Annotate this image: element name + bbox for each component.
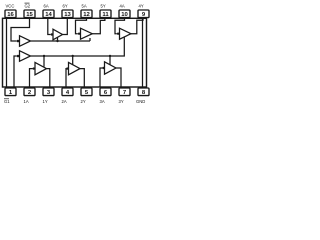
svg-text:5A: 5A [82,3,87,8]
wire 5A from pin 12 [76,18,87,33]
wire G1 from pin 1 to inverter U2 input [14,56,17,87]
pin 7 box [119,88,130,96]
svg-text:GND: GND [136,99,145,104]
pin 16 box [5,10,16,18]
wire riser E2 to buffer 6 enable [57,37,59,41]
svg-text:6Y: 6Y [63,3,68,8]
pin 11 box [100,10,111,18]
svg-text:G2: G2 [25,3,31,8]
wire 6A from pin 14 [48,18,51,34]
pin 2 box [24,88,35,96]
pin 13 box [62,10,73,18]
wire riser E1 to buffer 3 enable [109,56,111,65]
svg-text:14: 14 [45,12,52,18]
wire 2Y to pin 5 [80,69,84,87]
svg-text:11: 11 [102,12,109,18]
pin 9 box [138,10,149,18]
pin 3 box [43,88,54,96]
svg-text:3A: 3A [100,99,105,104]
wire enable bus E2 from U1 output [31,40,91,42]
pin 1 box [5,88,16,96]
wire enable bus E1 from U2 output to buffer 4 enable [31,37,125,56]
input bubble inverter U1 [17,40,20,43]
pin 6 box [100,88,111,96]
inverter U2 (G1 enable) [20,51,31,62]
overline G1 [4,98,9,100]
input dot buffer 3 [102,67,104,69]
input dot buffer 2 [66,67,68,69]
svg-text:1A: 1A [24,99,29,104]
wire riser E2 to buffer 5 enable [89,38,91,41]
overline G2 [25,2,30,4]
pin 12 box [81,10,92,18]
input dot buffer 5 [78,33,80,35]
svg-text:2Y: 2Y [81,99,86,104]
pin 10 box [119,10,130,18]
junction dot E2/buffer6 [56,40,58,42]
pin 14 box [43,10,54,18]
svg-text:3Y: 3Y [119,99,124,104]
wire 1Y to pin 3 [47,69,50,87]
junction dot E1/buffer2 [72,55,74,57]
svg-text:6A: 6A [44,3,49,8]
pin 4 box [62,88,73,96]
wire 5Y to pin 11 [92,18,105,33]
svg-text:1Y: 1Y [43,99,48,104]
buffer 2 [69,62,81,74]
wire 3A from pin 6 [100,68,102,87]
input dot buffer 4 [117,33,119,35]
buffer 5 [81,28,93,39]
buffer 1 [35,62,47,74]
package outline inner right line [142,18,144,87]
input dot buffer 1 [33,67,35,69]
svg-text:4Y: 4Y [139,3,144,8]
wire 3Y to pin 7 [116,68,121,87]
buffer 4 [120,28,132,39]
pin 8 box [138,88,149,96]
svg-text:15: 15 [26,12,33,18]
svg-text:2A: 2A [62,99,67,104]
wire riser E1 to buffer 2 enable [72,56,74,65]
wire 2A from pin 4 [65,69,67,87]
wire 4Y to pin 9 [131,18,143,33]
svg-text:13: 13 [64,12,71,18]
wire 4A from pin 10 [115,18,125,33]
wire 1A from pin 2 [30,69,33,87]
junction dot E1/buffer3 [109,55,111,57]
svg-text:4A: 4A [120,3,125,8]
pin 15 box [24,10,35,18]
input dot buffer 6 [51,33,53,35]
pin 5 box [81,88,92,96]
svg-text:G1: G1 [4,99,10,104]
package outline inner left line [6,18,8,87]
junction dot E1/buffer1 [43,55,45,57]
wire 6Y to pin 13 [63,18,68,34]
input bubble inverter U2 [17,55,20,58]
svg-text:16: 16 [7,12,14,18]
buffer 6 [53,29,63,40]
svg-text:5Y: 5Y [101,3,106,8]
wire G2 from pin 15 to inverter U1 input [11,18,30,41]
svg-text:12: 12 [83,12,90,18]
wire riser E1 to buffer 1 enable [43,56,45,67]
svg-text:VCC: VCC [6,3,15,8]
buffer 3 [105,62,117,74]
inverter U1 (G2 enable) [20,36,31,47]
package outline outer [3,18,147,87]
svg-text:10: 10 [121,12,128,18]
